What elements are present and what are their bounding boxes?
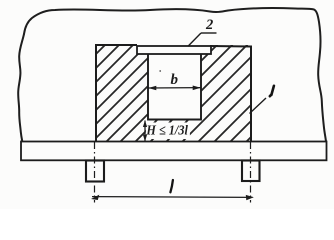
svg-text:2: 2 [205,17,213,33]
svg-text:H ≤ 1/3l: H ≤ 1/3l [145,123,188,138]
svg-text:b: b [171,72,179,88]
